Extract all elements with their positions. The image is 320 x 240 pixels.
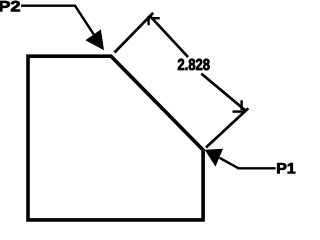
P2 leader diagonal segment (75, 6, 95, 37)
text label P1 (277, 163, 295, 173)
upper dimension arrowhead (open) (147, 16, 149, 25)
P2 leader horizontal segment (21, 4, 76, 6)
text label P2 (0, 1, 20, 11)
dimension line lower segment (201, 74, 245, 111)
P1 leader horizontal segment (238, 167, 276, 169)
extension line from P2 vertex (115, 13, 154, 53)
P1 leader solid arrowhead (205, 149, 223, 167)
P2 leader solid arrowhead (85, 29, 104, 50)
dimension line upper segment (150, 16, 189, 58)
chamfered square outline (28, 56, 203, 220)
text dimension value 2.828 (178, 59, 210, 70)
extension line from P1 vertex (206, 108, 248, 147)
P1 leader diagonal segment (220, 158, 239, 169)
lower dimension arrowhead (open) (240, 100, 242, 110)
